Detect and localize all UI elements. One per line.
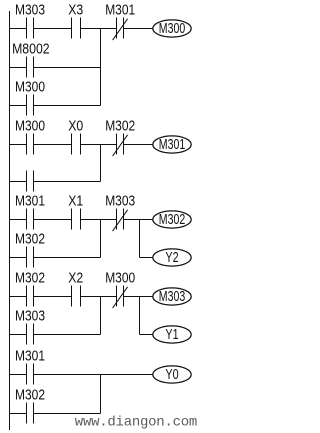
wire X0 to M302 through node xyxy=(81,144,117,146)
wire rail to M302 last xyxy=(10,413,27,415)
label M303 xyxy=(15,2,45,18)
wire rail to M300 parallel xyxy=(10,105,27,107)
contact M301 rung3 (NO) xyxy=(27,209,34,230)
branch vertical rung3 node xyxy=(100,220,102,258)
wire M300 parallel to node xyxy=(34,105,101,107)
label M302 rung2 xyxy=(105,118,135,134)
wire M301 to X1 xyxy=(34,219,72,221)
branch vertical rung4 node xyxy=(100,297,102,335)
wire M303 to coil M302 xyxy=(124,219,153,221)
svg-text:Y1: Y1 xyxy=(165,327,178,343)
wire parallel contact to node xyxy=(34,181,101,183)
svg-text:M303: M303 xyxy=(105,193,135,209)
coil M300 xyxy=(153,20,191,37)
contact M300 rung4 (NC) xyxy=(113,286,128,309)
label M301 rung3 xyxy=(15,193,45,209)
contact M301 rung5 (NO) xyxy=(27,364,34,385)
label M301 xyxy=(105,2,135,18)
wire X1 to M303 through node xyxy=(81,219,117,221)
contact X0 (NO) xyxy=(72,134,81,155)
contact M300 parallel (NO) xyxy=(27,95,34,116)
wire M303 parallel to node xyxy=(34,334,101,336)
wire branch to coil Y1 xyxy=(140,334,153,336)
label M303 rung3 xyxy=(105,193,135,209)
svg-text:M302: M302 xyxy=(15,270,45,286)
label M300 rung2 xyxy=(15,118,45,134)
wire M303 to X3 xyxy=(34,28,72,30)
svg-text:Y0: Y0 xyxy=(165,367,178,383)
svg-text:www.diangon.com: www.diangon.com xyxy=(75,415,197,431)
left power rail xyxy=(9,11,11,430)
branch vertical rung2 node xyxy=(100,145,102,182)
coil Y1 xyxy=(153,326,191,343)
contact M303 rung3 (NC) xyxy=(113,209,128,232)
parallel contact (NO) xyxy=(27,171,34,192)
coil Y0 xyxy=(153,366,191,383)
contact M302 parallel (NO) xyxy=(27,247,34,268)
svg-text:M302: M302 xyxy=(105,118,135,134)
contact M300 rung2 (NO) xyxy=(27,134,34,155)
wire M302 last to node xyxy=(34,413,101,415)
wire rung1 rail to M303 xyxy=(10,28,27,30)
wire branch to coil Y2 xyxy=(140,257,153,259)
branch vertical to Y2 xyxy=(139,220,141,258)
wire M302 to coil M301 xyxy=(124,144,153,146)
contact M8002 (NO) xyxy=(27,57,34,78)
svg-text:M301: M301 xyxy=(159,137,185,153)
contact X3 (NO) xyxy=(72,18,81,39)
branch vertical to Y1 xyxy=(139,297,141,335)
svg-text:X3: X3 xyxy=(68,2,83,18)
label X3 xyxy=(68,2,83,18)
label M300 rung4 xyxy=(105,270,135,286)
contact M302 last (NO) xyxy=(27,403,34,424)
svg-text:M301: M301 xyxy=(15,348,45,364)
label X2 xyxy=(68,270,83,286)
svg-text:M300: M300 xyxy=(159,21,185,37)
branch vertical rung1 node xyxy=(100,29,102,106)
svg-text:M300: M300 xyxy=(15,79,45,95)
svg-text:M302: M302 xyxy=(15,231,45,247)
contact X1 (NO) xyxy=(72,209,81,230)
contact M303 parallel (NO) xyxy=(27,324,34,345)
contact X2 (NO) xyxy=(72,286,81,307)
wire rail to M303 parallel xyxy=(10,334,27,336)
svg-text:M302: M302 xyxy=(159,212,185,228)
contact M302 (NC) xyxy=(113,134,128,157)
contact M303 (NO) xyxy=(27,18,34,39)
label M302 last xyxy=(15,387,45,403)
coil M302 xyxy=(153,211,191,228)
svg-text:M8002: M8002 xyxy=(12,41,50,57)
svg-text:M301: M301 xyxy=(15,193,45,209)
contact M302 rung4 (NO) xyxy=(27,286,34,307)
label M302 rung4 xyxy=(15,270,45,286)
wire rung5 rail to M301 xyxy=(10,374,27,376)
wire rail to M8002 xyxy=(10,67,27,69)
svg-text:M302: M302 xyxy=(15,387,45,403)
wire rung3 rail to M301 xyxy=(10,219,27,221)
coil Y2 xyxy=(153,249,191,266)
svg-text:M303: M303 xyxy=(15,2,45,18)
wire M300 to coil M303 xyxy=(124,296,153,298)
wire M8002 to node xyxy=(34,67,101,69)
wire rung4 rail to M302 xyxy=(10,296,27,298)
branch vertical rung5 node xyxy=(100,375,102,414)
coil M303 xyxy=(153,288,191,305)
wire M300 to X0 xyxy=(34,144,72,146)
label M303 parallel xyxy=(15,308,45,324)
label M300 parallel xyxy=(15,79,45,95)
svg-text:M303: M303 xyxy=(15,308,45,324)
svg-text:M301: M301 xyxy=(105,2,135,18)
label M301 rung5 xyxy=(15,348,45,364)
label X0 xyxy=(68,118,83,134)
wire X3 to M301 through node xyxy=(81,28,117,30)
wire M301 to coil M300 xyxy=(124,28,153,30)
wire rung2 rail to M300 xyxy=(10,144,27,146)
svg-text:M300: M300 xyxy=(105,270,135,286)
svg-text:X0: X0 xyxy=(68,118,83,134)
wire M301 to coil Y0 xyxy=(34,374,153,376)
wire rail to M302 parallel xyxy=(10,257,27,259)
svg-text:M303: M303 xyxy=(159,289,185,305)
label M302 parallel xyxy=(15,231,45,247)
svg-text:M300: M300 xyxy=(15,118,45,134)
svg-text:X2: X2 xyxy=(68,270,83,286)
wire M302 parallel to node xyxy=(34,257,101,259)
label X1 xyxy=(68,193,83,209)
svg-text:X1: X1 xyxy=(68,193,83,209)
wire M302 to X2 xyxy=(34,296,72,298)
svg-text:Y2: Y2 xyxy=(165,250,178,266)
contact M301 (NC) xyxy=(113,18,128,41)
coil M301 xyxy=(153,136,191,153)
wire rail to parallel contact xyxy=(10,181,27,183)
wire X2 to M300 through node xyxy=(81,296,117,298)
label M8002 xyxy=(12,41,50,57)
